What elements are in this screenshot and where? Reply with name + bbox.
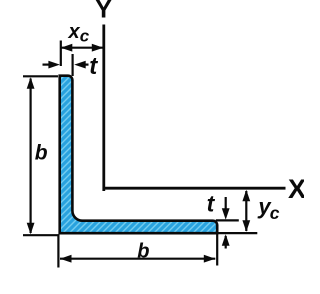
svg-text:Y: Y [95,0,112,24]
svg-text:c: c [80,27,90,46]
svg-text:x: x [68,21,81,43]
svg-text:b: b [137,240,149,262]
svg-text:t: t [89,53,98,80]
svg-text:b: b [35,142,48,165]
svg-text:c: c [270,203,280,223]
svg-text:X: X [288,174,304,204]
svg-text:t: t [207,190,216,216]
